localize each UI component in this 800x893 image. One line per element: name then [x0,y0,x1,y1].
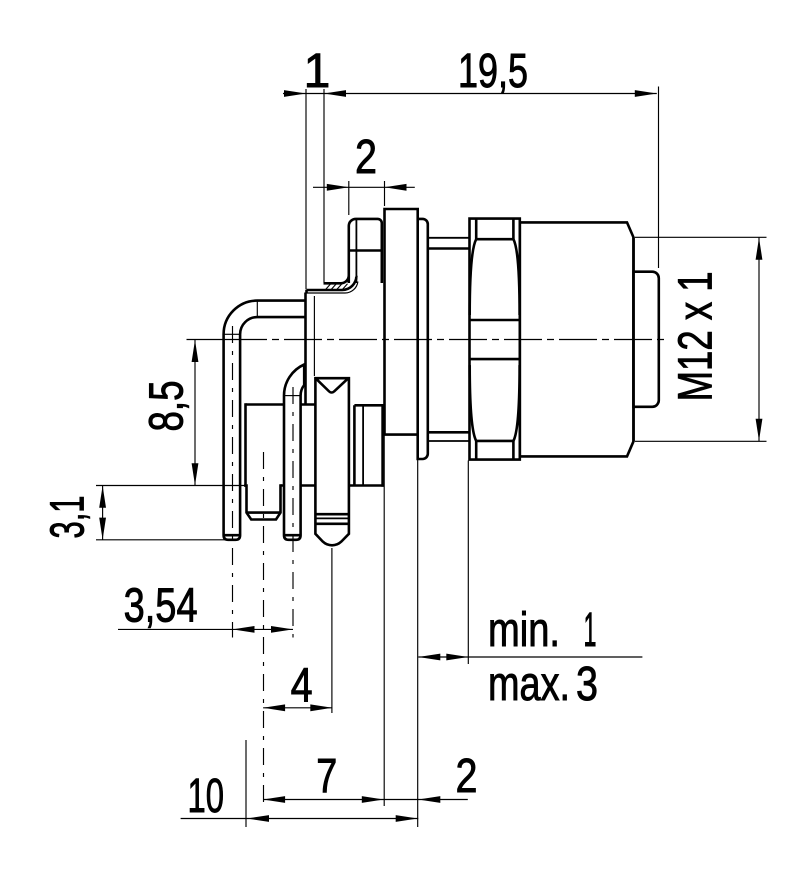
pin 1 (outer bent pin) [224,301,306,540]
dim line M12 [758,237,760,441]
dim line 4 [263,707,332,709]
ext line bracket head left [348,181,350,215]
coupling body front face [632,237,635,441]
ext line flange plate left top [384,181,386,206]
dim line 2 top [313,186,415,188]
bracket foot bottom [307,276,357,290]
flange rear face [304,293,307,405]
hex nut [470,219,520,460]
thread major diameter lines [428,237,470,239]
svg-text:19,5: 19,5 [458,45,528,98]
stub centreline [263,452,265,806]
ext line M12 bottom [635,440,767,442]
mating face cylinder [634,272,659,407]
svg-text:1: 1 [584,604,597,657]
contact stub [247,484,281,519]
bracket bend tangent [355,220,357,283]
coupling body [520,222,634,456]
bracket foot hatching [326,284,331,290]
centre pin grooves [315,513,349,516]
bracket foot top [324,275,349,283]
dim line 8,5 [194,340,196,486]
pin 1 centreline [232,326,234,638]
ext line mounting face [417,459,419,827]
centre pin [315,378,349,545]
dim line 3,1 [102,486,104,540]
pin 1 bend tangent lines [256,302,258,317]
ext line pin tips [96,539,229,541]
flange plate [385,209,418,435]
ext line flange face [305,89,307,290]
svg-text:10: 10 [188,770,225,823]
svg-text:7: 7 [316,750,337,803]
pin 1 tip line [224,534,241,537]
svg-text:min.: min. [488,604,560,657]
svg-text:M12 x 1: M12 x 1 [670,271,723,401]
svg-text:2: 2 [456,750,478,803]
pin 3 bend tangent line [285,395,300,397]
svg-text:8,5: 8,5 [141,381,194,432]
svg-text:2: 2 [355,131,377,184]
insulator block [246,405,383,486]
ext line flange plate left bottom [383,435,385,806]
dim line 7 and 2 [263,799,468,801]
bracket leg right edge [380,251,383,284]
pin 3 tip line [284,534,301,537]
insulator inner edge [353,405,356,485]
centre pin V-notch [316,379,348,393]
dim line 10 [181,818,419,820]
bracket foot step [305,290,308,293]
bracket head [349,219,382,283]
pin 3 centreline [292,387,294,638]
ext line mating face [658,87,660,269]
thread relief lines [428,247,470,250]
svg-text:max.: max. [488,658,570,711]
ext line M12 top [635,236,767,238]
ext line insulator left [245,740,247,827]
svg-text:1: 1 [304,45,331,98]
main axis centreline [187,339,230,341]
pin 3 (inner bent pin) [284,365,304,540]
svg-text:3: 3 [576,658,598,711]
dim line min/max [418,656,642,658]
svg-text:3,54: 3,54 [124,579,198,632]
washer [418,219,428,459]
flange step edge [313,296,315,376]
bracket head shoulder [349,249,382,252]
bracket foot edge [307,282,358,294]
ext line nut face [467,461,469,665]
ext line bracket edge [323,89,325,283]
dim line 3,54 [118,628,293,630]
dim line 1 / 19,5 [283,93,657,95]
svg-text:4: 4 [291,660,313,713]
centre pin centreline [331,548,333,713]
svg-text:3,1: 3,1 [42,496,95,539]
ext line insulator bottom [96,485,246,487]
